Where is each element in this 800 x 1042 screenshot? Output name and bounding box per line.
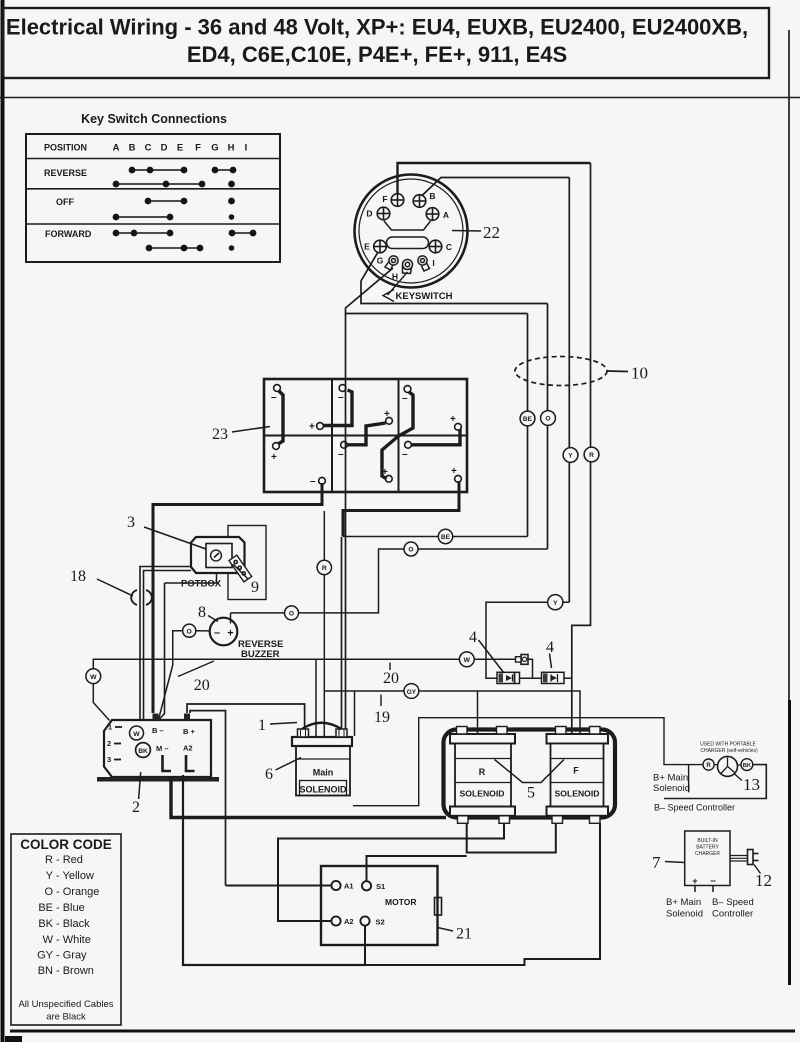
- svg-text:B– Speed Controller: B– Speed Controller: [654, 803, 735, 813]
- svg-text:F: F: [382, 194, 387, 204]
- svg-text:MOTOR: MOTOR: [385, 897, 416, 907]
- svg-text:S1: S1: [376, 882, 385, 891]
- svg-text:22: 22: [483, 223, 500, 242]
- svg-text:POSITION: POSITION: [44, 143, 87, 153]
- svg-text:2: 2: [132, 799, 140, 816]
- svg-text:M –: M –: [156, 744, 169, 753]
- svg-text:+: +: [227, 628, 233, 640]
- svg-text:–: –: [402, 449, 408, 460]
- svg-text:10: 10: [631, 364, 648, 383]
- svg-text:8: 8: [198, 604, 206, 621]
- svg-text:All Unspecified Cables: All Unspecified Cables: [18, 999, 113, 1010]
- svg-text:2: 2: [107, 739, 111, 748]
- svg-text:1: 1: [108, 723, 112, 732]
- svg-text:I: I: [245, 143, 248, 154]
- svg-text:F: F: [195, 143, 201, 154]
- svg-text:G: G: [211, 143, 218, 154]
- svg-text:CHARGER: CHARGER: [695, 851, 720, 857]
- svg-text:F: F: [573, 766, 579, 776]
- svg-text:3: 3: [107, 755, 111, 764]
- svg-text:O: O: [44, 886, 53, 898]
- svg-text:O: O: [408, 547, 413, 554]
- svg-text:R: R: [45, 854, 53, 866]
- svg-text:–: –: [271, 392, 277, 403]
- svg-text:GY: GY: [37, 950, 54, 962]
- svg-text:BK: BK: [743, 763, 752, 769]
- svg-text:+: +: [271, 452, 277, 463]
- svg-text:6: 6: [265, 766, 273, 783]
- svg-text:O: O: [289, 610, 294, 617]
- svg-text:BN: BN: [38, 965, 53, 977]
- svg-text:9: 9: [251, 579, 259, 596]
- svg-text:BK: BK: [138, 748, 148, 755]
- svg-text:- Gray: - Gray: [56, 950, 87, 962]
- svg-text:SOLENOID: SOLENOID: [555, 789, 600, 799]
- svg-text:5: 5: [527, 785, 535, 802]
- svg-text:FORWARD: FORWARD: [45, 229, 92, 239]
- svg-text:- Orange: - Orange: [56, 886, 99, 898]
- svg-text:SOLENOID: SOLENOID: [299, 785, 347, 795]
- svg-text:B: B: [429, 191, 435, 201]
- svg-text:–: –: [338, 449, 344, 460]
- svg-text:R: R: [589, 452, 594, 459]
- svg-text:USED WITH PORTABLE: USED WITH PORTABLE: [700, 742, 756, 748]
- svg-text:R: R: [706, 763, 711, 769]
- svg-text:B+ Main: B+ Main: [653, 773, 688, 784]
- svg-text:Solenoid: Solenoid: [666, 909, 703, 920]
- svg-text:R: R: [479, 767, 486, 777]
- svg-text:BUILT-IN: BUILT-IN: [697, 838, 718, 844]
- svg-text:23: 23: [212, 426, 228, 443]
- svg-text:13: 13: [743, 775, 760, 794]
- svg-text:- White: - White: [56, 934, 91, 946]
- svg-text:Main: Main: [313, 768, 334, 778]
- svg-text:are Black: are Black: [46, 1012, 86, 1023]
- svg-text:W: W: [464, 657, 471, 664]
- svg-text:20: 20: [383, 670, 399, 687]
- svg-text:–: –: [310, 476, 316, 487]
- svg-text:12: 12: [755, 871, 772, 890]
- svg-text:Solenoid: Solenoid: [653, 783, 690, 794]
- svg-text:+: +: [450, 414, 456, 425]
- svg-text:R: R: [322, 565, 327, 572]
- svg-text:- Brown: - Brown: [56, 965, 94, 977]
- svg-text:Y: Y: [553, 600, 558, 607]
- svg-text:21: 21: [456, 926, 472, 943]
- svg-text:S2: S2: [376, 918, 385, 927]
- svg-text:- Blue: - Blue: [56, 902, 85, 914]
- svg-text:BE: BE: [523, 416, 533, 423]
- svg-text:18: 18: [70, 568, 86, 585]
- svg-text:W: W: [133, 731, 140, 738]
- svg-text:B: B: [129, 143, 136, 154]
- svg-text:+: +: [692, 876, 697, 886]
- svg-text:+: +: [382, 467, 388, 478]
- svg-text:ED4, C6E,C10E, P4E+, FE+, 911,: ED4, C6E,C10E, P4E+, FE+, 911, E4S: [187, 42, 567, 67]
- svg-text:Electrical Wiring - 36 and 48: Electrical Wiring - 36 and 48 Volt, XP+:…: [6, 15, 748, 40]
- svg-text:C: C: [145, 143, 152, 154]
- svg-text:Key Switch Connections: Key Switch Connections: [81, 112, 227, 126]
- svg-text:–: –: [338, 392, 344, 403]
- svg-text:POTBOX: POTBOX: [181, 579, 222, 590]
- svg-text:BK: BK: [38, 918, 53, 930]
- svg-text:–: –: [402, 393, 408, 404]
- svg-text:W: W: [43, 934, 54, 946]
- svg-text:BE: BE: [38, 902, 53, 914]
- svg-text:BUZZER: BUZZER: [241, 649, 280, 660]
- svg-text:O: O: [545, 416, 550, 423]
- svg-text:–: –: [710, 876, 716, 887]
- svg-text:A1: A1: [344, 882, 354, 891]
- svg-text:REVERSE: REVERSE: [44, 168, 87, 178]
- svg-text:I: I: [432, 258, 434, 268]
- svg-text:H: H: [228, 143, 235, 154]
- svg-text:Y: Y: [568, 453, 573, 460]
- svg-text:CHARGER (self-vehicles): CHARGER (self-vehicles): [700, 748, 758, 754]
- svg-text:- Black: - Black: [56, 918, 90, 930]
- svg-text:B+ Main: B+ Main: [666, 897, 701, 908]
- svg-text:B +: B +: [183, 727, 196, 736]
- svg-text:3: 3: [127, 514, 135, 531]
- svg-text:- Yellow: - Yellow: [56, 870, 94, 882]
- svg-text:SOLENOID: SOLENOID: [460, 789, 505, 799]
- svg-text:H: H: [392, 272, 398, 282]
- svg-text:C: C: [446, 242, 452, 252]
- svg-text:A: A: [113, 143, 120, 154]
- svg-text:+: +: [451, 466, 457, 477]
- svg-text:19: 19: [374, 709, 390, 726]
- svg-text:+: +: [384, 409, 390, 420]
- svg-text:B– Speed: B– Speed: [712, 897, 754, 908]
- svg-text:KEYSWITCH: KEYSWITCH: [396, 291, 453, 302]
- svg-text:A2: A2: [183, 744, 193, 753]
- svg-text:E: E: [364, 242, 370, 252]
- svg-text:Controller: Controller: [712, 909, 753, 920]
- svg-text:O: O: [187, 628, 192, 635]
- svg-text:7: 7: [652, 853, 661, 872]
- svg-text:20: 20: [194, 677, 210, 694]
- svg-text:D: D: [161, 143, 168, 154]
- svg-text:A2: A2: [344, 917, 354, 926]
- svg-text:D: D: [366, 209, 372, 219]
- svg-text:GY: GY: [407, 689, 417, 696]
- svg-text:B –: B –: [152, 726, 164, 735]
- svg-text:4: 4: [469, 629, 477, 646]
- svg-text:4: 4: [546, 639, 554, 656]
- svg-text:G: G: [377, 256, 384, 266]
- svg-text:W: W: [90, 674, 97, 681]
- svg-text:A: A: [443, 210, 449, 220]
- svg-text:–: –: [214, 627, 220, 639]
- svg-text:COLOR CODE: COLOR CODE: [20, 837, 112, 852]
- svg-text:BE: BE: [441, 534, 451, 541]
- svg-text:E: E: [177, 143, 183, 154]
- svg-text:OFF: OFF: [56, 197, 74, 207]
- svg-text:BATTERY: BATTERY: [696, 845, 719, 851]
- svg-text:Y: Y: [46, 870, 54, 882]
- svg-text:- Red: - Red: [56, 854, 83, 866]
- svg-text:1: 1: [258, 717, 266, 734]
- svg-text:+: +: [309, 422, 315, 433]
